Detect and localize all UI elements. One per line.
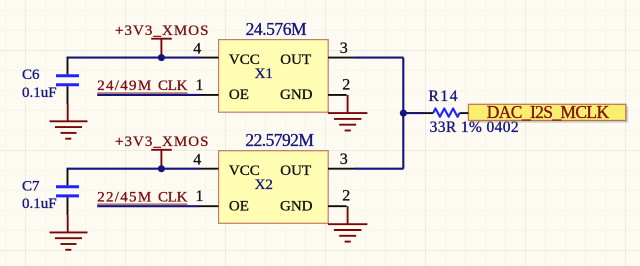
wire (top VCC row): [67, 57, 200, 59]
pin 2 of X1: [328, 94, 347, 96]
svg-text:0.1uF: 0.1uF: [22, 196, 57, 212]
oscillator X1 body: [219, 40, 329, 113]
svg-text:+3V3_XMOS: +3V3_XMOS: [115, 134, 209, 150]
pin 4 of X2: [199, 168, 218, 170]
pin 1 of X2: [199, 205, 218, 207]
wire (vertical bus joining X1/X2 outputs): [402, 58, 404, 169]
resistor R14: [423, 109, 469, 117]
power port +3V3_XMOS (top): [115, 23, 209, 58]
wire (bottom VCC row): [67, 168, 200, 170]
wire (bottom OE row stub): [97, 205, 199, 207]
oscillator X2 body: [219, 151, 329, 224]
svg-text:DAC_I2S_MCLK: DAC_I2S_MCLK: [487, 102, 610, 122]
ground (below C6): [50, 104, 88, 139]
svg-text:R14: R14: [429, 88, 458, 105]
wire (bus to R14): [403, 112, 423, 114]
svg-text:OUT: OUT: [280, 52, 311, 68]
net label 24/49M_CLK: [97, 78, 187, 94]
svg-text:CLK: CLK: [158, 189, 188, 205]
wire (top OE row stub): [97, 94, 199, 96]
pin 3 of X1: [328, 57, 354, 59]
svg-text:GND: GND: [280, 87, 313, 103]
svg-text:3: 3: [340, 40, 348, 57]
svg-text:24/49M: 24/49M: [97, 78, 151, 94]
svg-text:C6: C6: [22, 67, 40, 83]
svg-text:3: 3: [340, 151, 348, 168]
pin 3 of X2: [328, 168, 354, 170]
svg-text:X1: X1: [255, 66, 273, 82]
junction (bus to R14 branch): [400, 110, 407, 117]
svg-text:22.5792M: 22.5792M: [245, 130, 314, 150]
power port +3V3_XMOS (bottom): [115, 134, 209, 169]
net label DAC_I2S_MCLK (highlighted): [468, 102, 628, 123]
svg-text:OE: OE: [229, 87, 249, 103]
junction (power to wire, bottom): [158, 165, 165, 172]
pin 4 of X1: [199, 57, 218, 59]
capacitor C7: [56, 169, 79, 215]
ground (X1 GND pin): [328, 95, 368, 131]
svg-text:0.1uF: 0.1uF: [22, 85, 57, 101]
svg-text:OE: OE: [229, 198, 249, 214]
pin 2 of X2: [328, 205, 347, 207]
svg-text:22/45M: 22/45M: [97, 189, 151, 205]
ground (below C7): [50, 215, 88, 250]
wire (X2 OUT to vertical bus): [354, 168, 404, 170]
net label 22/45M_CLK: [97, 189, 187, 205]
ground (X2 GND pin): [328, 206, 368, 241]
capacitor C6: [56, 58, 79, 104]
svg-text:1: 1: [196, 188, 204, 205]
svg-text:2: 2: [342, 76, 350, 93]
svg-text:4: 4: [193, 40, 201, 57]
svg-text:4: 4: [193, 151, 201, 168]
svg-text:1: 1: [196, 77, 204, 94]
svg-text:OUT: OUT: [280, 163, 311, 179]
svg-text:CLK: CLK: [158, 78, 188, 94]
svg-text:GND: GND: [280, 198, 313, 214]
junction (power to wire, top): [158, 54, 165, 61]
wire (X1 OUT to vertical bus): [354, 57, 404, 59]
svg-text:24.576M: 24.576M: [246, 19, 307, 39]
svg-text:X2: X2: [255, 177, 273, 193]
pin 1 of X1: [199, 94, 218, 96]
svg-text:+3V3_XMOS: +3V3_XMOS: [115, 23, 209, 39]
svg-text:2: 2: [342, 188, 350, 205]
svg-text:C7: C7: [22, 178, 40, 194]
